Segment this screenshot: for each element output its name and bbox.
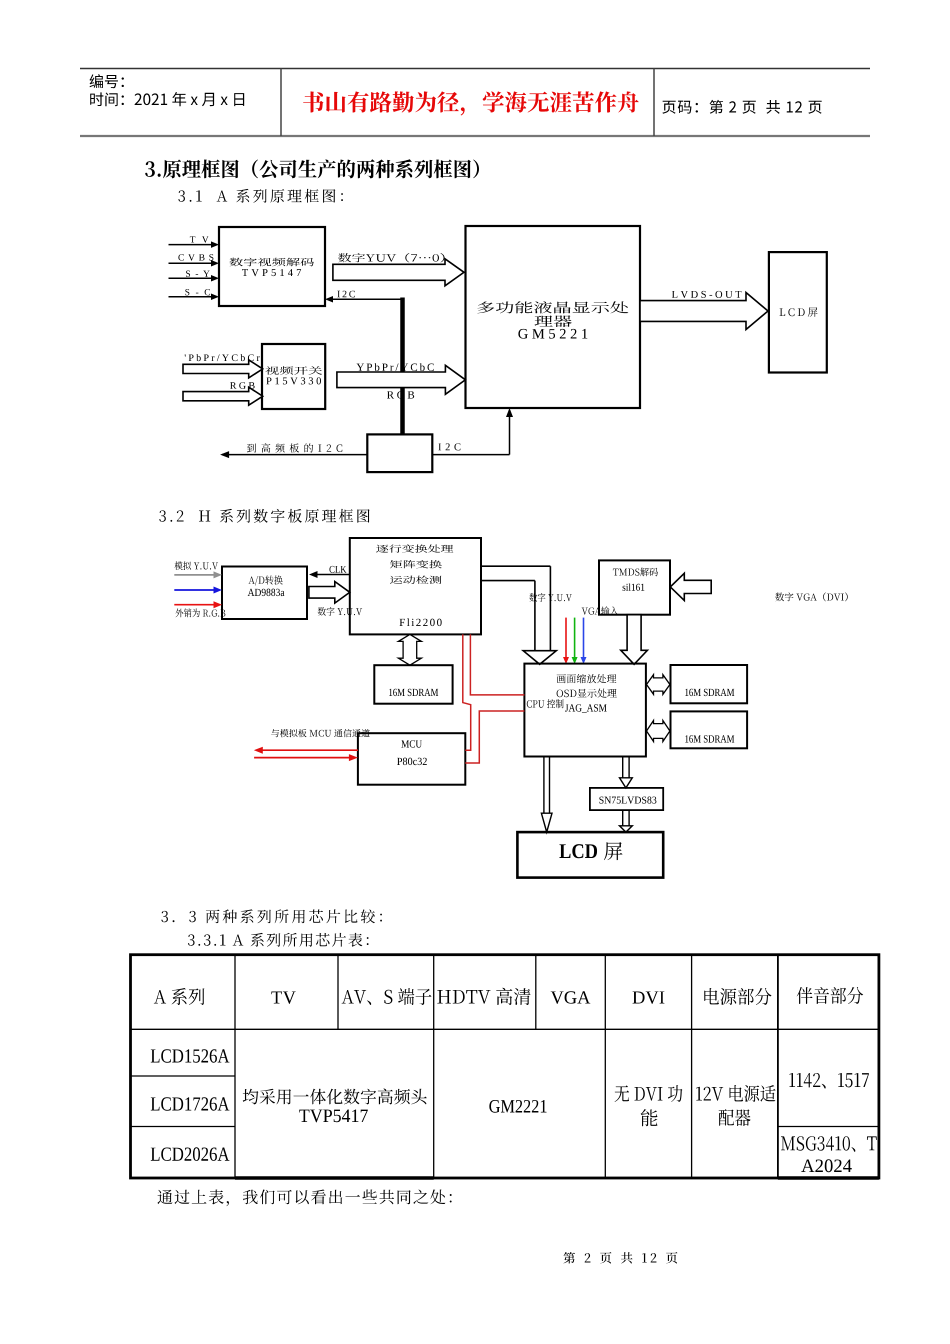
table cell 1142、1517 (789, 1073, 869, 1089)
header rule top (80, 68, 870, 70)
table outer border (131, 955, 879, 1178)
table header TV (271, 991, 295, 1003)
wire I2C to TVP5147 (325, 296, 401, 303)
bus double arrow JAG to SDRAM 2 (647, 721, 670, 742)
heading 3.3 (161, 909, 382, 923)
input analog V (red) (174, 601, 222, 608)
input RGB to P15V330 (183, 382, 263, 405)
bus arrow JAG to SN75LVDS83 (620, 757, 633, 788)
label 外销为 R.G.B (176, 609, 226, 618)
header slogan red (303, 91, 639, 115)
label I2C near TVP5147 (337, 291, 355, 298)
block 16M SDRAM (right 1) (671, 665, 748, 703)
heading 3. 原理框图 (145, 159, 479, 178)
table header 电源部分 (704, 988, 771, 1005)
table header DVI (633, 991, 665, 1003)
paragraph 通过上表 (157, 1190, 451, 1207)
input CVBS (169, 254, 220, 266)
input analog U (blue) (174, 587, 222, 594)
heading 3.3.1 (188, 933, 369, 947)
input TV (169, 236, 220, 248)
block 16M SDRAM (left) (374, 665, 452, 704)
wire junction box to GM5221 (432, 408, 513, 455)
block I2C junction box (367, 434, 432, 472)
block U1 digital video decoder TVP5147 (219, 227, 325, 306)
table cell 均采用一体化数字高频头 TVP5417 (243, 1089, 427, 1123)
table cell LCD2026A (151, 1147, 230, 1161)
block U2 video switch P15V330 (262, 344, 325, 409)
table header 伴音部分 (797, 987, 864, 1004)
heading 3.1 (178, 189, 343, 203)
bus arrow JAG to LCD (narrow hollow) (541, 757, 552, 833)
bus arrow 数字Y.U.V AD9883a to Fli2200 (309, 582, 362, 616)
table row divider 1 (col A only) (131, 1075, 236, 1077)
table column dividers header only (338, 955, 536, 1030)
block LCD screen (A series) (769, 252, 827, 372)
bus arrow sil161 to JAG (621, 615, 648, 665)
input S-Y (169, 271, 220, 282)
header divider 2 (653, 69, 655, 137)
header cell: 页码 第2页 共12页 (662, 100, 821, 114)
wire to high-frequency board I2C (220, 443, 367, 458)
input S-C (169, 289, 220, 300)
input analog Y (gray) (174, 571, 222, 578)
header cell: 编号 (90, 74, 124, 88)
header cell: 时间 2021年x月x日 (90, 92, 244, 106)
table header AV、S 端子 (342, 988, 432, 1005)
block 16M SDRAM (right 2) (671, 711, 748, 748)
table header HDTV 高清 (437, 988, 530, 1005)
table cell LCD1726A (151, 1097, 230, 1110)
input VGA B (blue arrow) (581, 618, 587, 664)
bus double arrow Fli2200 to SDRAM left (398, 634, 421, 665)
label VGA输入 (582, 606, 619, 615)
table cell LCD1526A (151, 1049, 230, 1062)
label I2C near junction box (438, 443, 460, 450)
block U3 display processor GM5221 (466, 226, 641, 408)
heading 3.2 (159, 509, 369, 523)
header rule bottom (80, 135, 870, 137)
bus double arrow JAG to SDRAM 1 (647, 675, 670, 695)
label 与模拟板 MCU 通信通道 (271, 729, 370, 737)
table column dividers full height (235, 955, 778, 1178)
wire I2C vertical thick bus (400, 298, 405, 435)
table row divider 2 (131, 1126, 879, 1128)
block U8 MCU P80c32 (358, 733, 465, 785)
table row divider header (131, 1028, 879, 1030)
wire MCU comm out (red left arrow) (254, 747, 358, 754)
table cell 无 DVI 功能 (615, 1085, 683, 1126)
wire red JAG to MCU (465, 711, 524, 763)
table thick bottom segments (235, 1176, 879, 1180)
table header A 系列 (154, 988, 205, 1005)
header divider 1 (280, 69, 282, 137)
wire red Fli2200 to JAG (470, 634, 524, 695)
block U5 deinterlacer Fli2200 (350, 538, 481, 634)
wire red Fli2200 to MCU (463, 634, 471, 750)
input DVI hollow arrow into sil161 (670, 573, 711, 600)
block LCD screen (H series) (517, 832, 663, 878)
block U9 SN75LVDS83 (590, 788, 663, 810)
bus elbow Fli2200 to JAG (digital YUV) (481, 566, 572, 664)
block U6 TMDS decoder sil161 (599, 560, 670, 614)
label 数字 VGA（DVI） (775, 592, 847, 601)
table header VGA (551, 991, 591, 1004)
bus arrow YPbPr/YCbC to GM5221 (337, 363, 466, 394)
label RGB under YPbPr arrow (387, 391, 414, 398)
input VGA G (green arrow) (572, 618, 578, 664)
bus arrow SN75LVDS83 to LCD (620, 810, 633, 832)
input 'PbPr/YCbCr (183, 354, 263, 378)
bus arrow 数字YUV(7..0) TVP5147 to GM5221 (333, 253, 464, 286)
wire CLK Fli2200 to AD9883a (309, 566, 350, 578)
table cell 12V 电源适配器 (696, 1085, 775, 1126)
wire MCU comm in (red right arrow) (254, 754, 358, 761)
bus arrow LVDS-OUT GM5221 to LCD (640, 291, 768, 330)
table cell GM2221 (489, 1100, 546, 1113)
block U4 A/D converter AD9883a (222, 567, 307, 620)
page footer (564, 1252, 678, 1264)
table cell MSG3410、TA2024 (781, 1136, 877, 1172)
label 模拟 Y.U.V (175, 561, 219, 570)
block U7 scaler JAG_ASM (524, 664, 646, 757)
input VGA R (red arrow) (563, 618, 569, 664)
